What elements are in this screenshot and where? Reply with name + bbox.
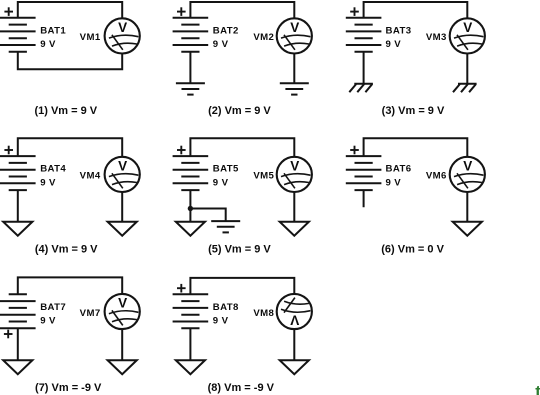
svg-text:9 V: 9 V [386, 177, 402, 188]
svg-text:VM3: VM3 [426, 32, 447, 43]
svg-text:BAT3: BAT3 [386, 25, 412, 36]
svg-text:BAT8: BAT8 [213, 302, 239, 313]
svg-text:BAT7: BAT7 [40, 302, 66, 313]
svg-text:VM5: VM5 [253, 171, 274, 182]
svg-text:VM8: VM8 [253, 308, 274, 319]
svg-text:9 V: 9 V [213, 177, 229, 188]
svg-text:(5) Vm = 9 V: (5) Vm = 9 V [208, 243, 271, 255]
svg-text:9 V: 9 V [213, 39, 229, 50]
svg-text:9 V: 9 V [40, 39, 56, 50]
svg-text:9 V: 9 V [40, 177, 56, 188]
svg-text:VM6: VM6 [426, 171, 447, 182]
svg-text:(4) Vm = 9 V: (4) Vm = 9 V [35, 243, 98, 255]
svg-text:(1) Vm = 9 V: (1) Vm = 9 V [34, 105, 97, 117]
svg-text:VM4: VM4 [80, 171, 101, 182]
svg-text:VM7: VM7 [80, 308, 101, 319]
svg-text:(8) Vm = -9 V: (8) Vm = -9 V [208, 382, 275, 394]
svg-text:9 V: 9 V [213, 315, 229, 326]
svg-text:BAT4: BAT4 [40, 164, 66, 175]
svg-text:BAT6: BAT6 [386, 164, 412, 175]
svg-text:9 V: 9 V [40, 315, 56, 326]
svg-text:(3) Vm = 9 V: (3) Vm = 9 V [382, 105, 445, 117]
svg-text:BAT2: BAT2 [213, 25, 239, 36]
svg-text:(7) Vm = -9 V: (7) Vm = -9 V [35, 382, 102, 394]
svg-text:BAT1: BAT1 [40, 25, 66, 36]
svg-text:BAT5: BAT5 [213, 164, 239, 175]
svg-text:t: t [535, 382, 540, 395]
svg-text:VM1: VM1 [80, 32, 101, 43]
svg-text:(6) Vm = 0 V: (6) Vm = 0 V [381, 243, 444, 255]
svg-text:9 V: 9 V [386, 39, 402, 50]
svg-text:VM2: VM2 [253, 32, 274, 43]
svg-text:(2) Vm = 9 V: (2) Vm = 9 V [208, 105, 271, 117]
